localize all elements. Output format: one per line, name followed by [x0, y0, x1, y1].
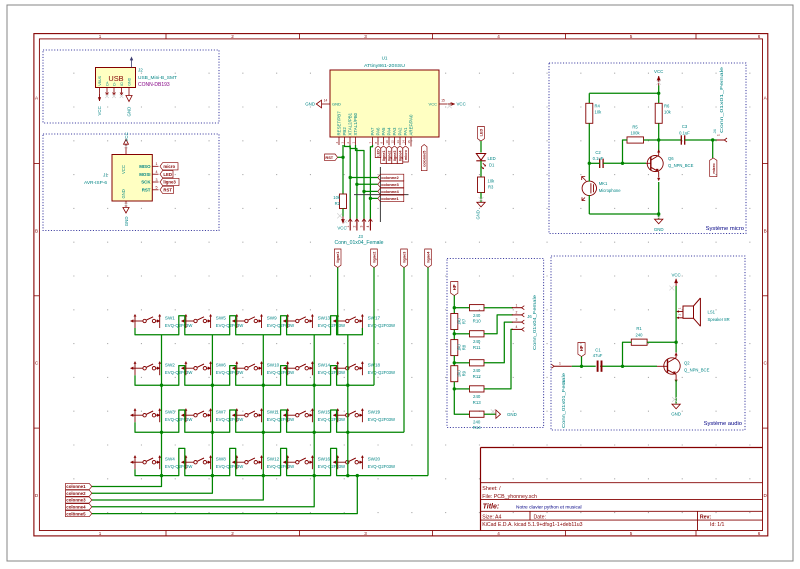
- svg-text:R8: R8: [462, 344, 467, 350]
- power GND micro: [654, 214, 664, 232]
- svg-text:3: 3: [364, 34, 367, 39]
- svg-text:GND: GND: [127, 107, 132, 117]
- global label colonne1: [66, 483, 92, 489]
- svg-text:VCC: VCC: [457, 102, 466, 107]
- switch SW2 EVQ-Q2F03W: [130, 361, 193, 375]
- global label LED: [478, 127, 485, 142]
- svg-text:10k: 10k: [488, 178, 496, 183]
- svg-text:ligne3: ligne3: [393, 151, 397, 162]
- junction base node: [621, 162, 624, 165]
- wire row 3 rail: [135, 410, 404, 432]
- title block: [481, 448, 763, 531]
- wire R6 to collector: [658, 123, 660, 151]
- svg-text:EVQ-Q2F03W: EVQ-Q2F03W: [318, 323, 346, 328]
- power VCC micro: [654, 69, 663, 86]
- svg-text:R10: R10: [473, 319, 482, 324]
- svg-text:SW14: SW14: [318, 363, 331, 368]
- svg-text:1: 1: [717, 134, 721, 136]
- switch SW1 EVQ-Q2F03W: [130, 314, 193, 328]
- svg-text:240: 240: [473, 368, 481, 373]
- global label ligne4: [425, 249, 432, 268]
- svg-text:Date:: Date:: [534, 514, 546, 520]
- svg-text:colonne5: colonne5: [423, 151, 427, 167]
- wire ligne1 to row 1: [337, 268, 339, 335]
- svg-text:R6: R6: [664, 104, 670, 109]
- svg-text:1k0: 1k0: [456, 344, 461, 351]
- wire RESET/PB7 to R2: [342, 145, 344, 194]
- svg-text:ligne2: ligne2: [388, 151, 392, 162]
- svg-text:47uF: 47uF: [593, 353, 603, 358]
- wire node1 to R10: [454, 307, 469, 309]
- svg-text:2: 2: [353, 226, 357, 228]
- svg-text:MISO: MISO: [139, 164, 151, 169]
- svg-text:XTAL2/PB1: XTAL2/PB1: [348, 112, 353, 135]
- svg-text:EVQ-Q2F03W: EVQ-Q2F03W: [368, 370, 396, 375]
- svg-text:3: 3: [516, 318, 518, 322]
- wire row 4 rail: [135, 448, 428, 475]
- global label colonne3: [66, 497, 92, 503]
- switch SW3 EVQ-Q2F03W: [130, 408, 193, 422]
- global label micro at U1: [403, 146, 409, 162]
- U1 bottom pins: [335, 111, 413, 145]
- svg-text:Q_NPN_BCE: Q_NPN_BCE: [668, 163, 694, 168]
- svg-text:colonne4: colonne4: [66, 505, 86, 510]
- svg-text:GND: GND: [654, 227, 664, 232]
- svg-text:15: 15: [441, 98, 445, 102]
- junction gnd rail: [657, 212, 660, 215]
- svg-text:File: PCB_yhonney.sch: File: PCB_yhonney.sch: [482, 494, 537, 500]
- wire D1 to R3: [480, 161, 482, 177]
- svg-text:SCK: SCK: [141, 180, 151, 185]
- svg-text:1: 1: [99, 34, 102, 39]
- svg-text:C1: C1: [595, 347, 601, 352]
- svg-text:LED: LED: [377, 149, 381, 157]
- svg-text:PA1: PA1: [403, 127, 408, 136]
- svg-text:SW8: SW8: [216, 457, 226, 462]
- svg-text:SW11: SW11: [267, 410, 280, 415]
- svg-text:3: 3: [364, 531, 367, 536]
- svg-text:PA4: PA4: [387, 127, 392, 136]
- switch SW10 EVQ-Q2F03W: [232, 361, 295, 375]
- junction column 3 rails: [262, 384, 265, 387]
- switch SW8 EVQ-Q2F03W: [181, 455, 244, 469]
- junction column 5 rails: [346, 384, 349, 387]
- svg-text:1: 1: [156, 162, 158, 166]
- switch SW17 EVQ-Q2F03W: [333, 314, 396, 328]
- wire emitter to gnd rail: [658, 182, 660, 214]
- svg-text:SW13: SW13: [318, 315, 331, 320]
- svg-text:colonne2: colonne2: [66, 491, 86, 496]
- svg-text:AREF/PA0: AREF/PA0: [409, 114, 414, 135]
- wire to colonne2 label: [350, 177, 378, 179]
- global label micro: [710, 158, 717, 177]
- wire column 1 vertical: [161, 335, 163, 476]
- wire MK1 to gnd rail: [588, 195, 590, 214]
- svg-text:R14: R14: [473, 425, 482, 430]
- wire R8 to node3: [453, 356, 455, 366]
- svg-text:MK1: MK1: [599, 181, 608, 186]
- switch SW13 EVQ-Q2F03W: [283, 314, 346, 328]
- wire R3 to GND: [480, 193, 482, 203]
- connector J1 AVR-ISP-6: [112, 149, 159, 208]
- junction micro label node: [711, 138, 714, 141]
- svg-text:R9: R9: [462, 370, 467, 376]
- svg-text:LS1: LS1: [708, 310, 716, 315]
- switch SW5 EVQ-Q2F03W: [181, 314, 244, 328]
- svg-text:colonne3: colonne3: [66, 498, 86, 503]
- wire R1 left to base node: [623, 342, 632, 366]
- global label ligne3 at U1: [392, 146, 398, 164]
- svg-text:6: 6: [758, 34, 761, 39]
- switch SW6 EVQ-Q2F03W: [181, 361, 244, 375]
- svg-text:SW16: SW16: [318, 457, 331, 462]
- transistor Q6 Q_NPN_BCE: [646, 150, 694, 181]
- svg-text:ligne4: ligne4: [399, 150, 403, 162]
- svg-text:ligne4: ligne4: [427, 251, 431, 263]
- svg-text:RESET/PB7: RESET/PB7: [337, 111, 342, 136]
- global label HP ladder: [451, 282, 458, 296]
- wire R12 to J6 pin3: [484, 322, 513, 363]
- resistor R10 240: [470, 305, 485, 324]
- svg-text:PA5: PA5: [381, 127, 386, 136]
- Systeme audio dotted frame: [551, 256, 745, 430]
- global label colonne2: [66, 490, 92, 496]
- switch SW15 EVQ-Q2F03W: [283, 408, 346, 422]
- svg-text:VCC: VCC: [429, 102, 438, 107]
- svg-text:Système audio: Système audio: [704, 421, 742, 427]
- svg-text:VCC: VCC: [121, 165, 126, 174]
- svg-text:5: 5: [630, 531, 633, 536]
- svg-text:R1: R1: [636, 326, 642, 331]
- svg-text:SW20: SW20: [368, 457, 381, 462]
- svg-text:micro: micro: [163, 164, 175, 169]
- resistor ladder dotted frame: [447, 258, 544, 427]
- switch SW4 EVQ-Q2F03W: [130, 455, 193, 469]
- junction column 1 rails: [160, 384, 163, 387]
- svg-text:10k: 10k: [664, 110, 672, 115]
- resistor R5 100k: [627, 125, 644, 144]
- svg-text:KiCad E.D.A. kicad 5.1.9+dfsg: KiCad E.D.A. kicad 5.1.9+dfsg1-1+deb11u3: [482, 522, 582, 528]
- svg-text:Système micro: Système micro: [706, 226, 744, 232]
- wire R13 to J6 pin4: [484, 329, 513, 389]
- svg-text:Conn_01x01_Female: Conn_01x01_Female: [561, 372, 566, 428]
- junction base node audio: [621, 365, 624, 368]
- wire LED label to D1: [480, 141, 482, 153]
- junction column 4 rails: [313, 384, 316, 387]
- LED D1: [476, 154, 495, 170]
- svg-text:SW1: SW1: [165, 315, 175, 320]
- svg-text:Q_NPN_BCE: Q_NPN_BCE: [684, 368, 710, 373]
- svg-text:13: 13: [396, 140, 400, 144]
- global label colonne5 at U1: [421, 145, 427, 171]
- connector J2 USB: [96, 68, 136, 95]
- svg-text:SW9: SW9: [267, 315, 277, 320]
- svg-text:Q2: Q2: [684, 361, 690, 366]
- svg-text:SW19: SW19: [368, 410, 381, 415]
- resistor R11 240: [470, 331, 485, 350]
- svg-text:MOSI: MOSI: [139, 172, 150, 177]
- resistor R7 1k: [451, 314, 467, 330]
- wire C2 to Q6 base: [603, 162, 646, 164]
- wire base line audio: [600, 365, 657, 367]
- wire to colonne4 label: [364, 190, 378, 192]
- wire RST to RESET pin: [338, 156, 343, 158]
- svg-text:B: B: [764, 228, 767, 233]
- svg-text:micro: micro: [712, 163, 716, 174]
- global label colonne3: [378, 181, 404, 188]
- capacitor C3 0.1uF: [679, 124, 690, 145]
- svg-text:Sheet: /: Sheet: /: [482, 486, 501, 492]
- global label ligne3: [160, 178, 179, 185]
- svg-text:colonne5: colonne5: [66, 511, 86, 516]
- svg-text:SW2: SW2: [165, 363, 175, 368]
- graphic line horizontal: [354, 194, 409, 196]
- svg-text:1: 1: [516, 303, 518, 307]
- power GND below J1: [123, 203, 129, 227]
- svg-text:Size: A4: Size: A4: [482, 514, 501, 520]
- junction node2: [453, 332, 456, 335]
- wire emitter to GND audio: [675, 380, 677, 404]
- wire colonne3 drop: [92, 476, 263, 500]
- svg-text:0.1uF: 0.1uF: [593, 156, 604, 161]
- junction RESET node: [341, 156, 344, 159]
- svg-text:0.1uF: 0.1uF: [679, 130, 690, 135]
- svg-text:240: 240: [636, 333, 644, 338]
- wire mic node to C2: [589, 162, 599, 164]
- svg-text:Conn_01x01_Female: Conn_01x01_Female: [719, 66, 724, 133]
- global label micro: [160, 163, 178, 170]
- svg-text:colonne1: colonne1: [66, 484, 86, 489]
- global label ligne4 at U1: [397, 146, 403, 164]
- power GND ladder: [491, 409, 517, 418]
- svg-text:colonne3: colonne3: [381, 182, 399, 187]
- wire node2 to R11: [454, 333, 469, 335]
- svg-text:R11: R11: [473, 345, 481, 350]
- svg-text:ligne2: ligne2: [373, 252, 377, 263]
- svg-text:R13: R13: [473, 400, 482, 405]
- svg-text:J2: J2: [138, 68, 143, 73]
- svg-text:1: 1: [99, 531, 102, 536]
- resistor R2 10k: [333, 194, 346, 209]
- svg-text:GND: GND: [305, 102, 315, 107]
- wire XTAL1/PB0 to colonne4 and J3 pin3: [356, 145, 365, 219]
- svg-text:LED: LED: [480, 129, 484, 137]
- connector J3 Conn_01x04_Female: [335, 219, 384, 246]
- svg-text:4: 4: [516, 325, 518, 329]
- svg-text:R4: R4: [595, 104, 601, 109]
- wire column 3 vertical: [262, 335, 264, 476]
- wire R5 right to C3: [644, 139, 682, 141]
- svg-text:LED: LED: [163, 172, 172, 177]
- svg-text:3: 3: [360, 226, 364, 228]
- wire node4 down to R14: [454, 389, 469, 414]
- Systeme micro dotted frame: [549, 63, 746, 234]
- junction colonne5 drop: [356, 474, 359, 477]
- svg-text:VBUS: VBUS: [98, 75, 102, 85]
- transistor Q2 Q_NPN_BCE: [657, 353, 710, 383]
- svg-text:EVQ-Q2F03W: EVQ-Q2F03W: [318, 417, 346, 422]
- connector J4 Conn_01x01_Female: [712, 66, 727, 142]
- U1 pin VCC right: [429, 98, 447, 106]
- svg-text:GND: GND: [476, 210, 481, 219]
- svg-text:240: 240: [473, 394, 481, 399]
- resistor R1 240: [631, 326, 647, 345]
- connector J5 Conn_01x01_Female: [551, 362, 571, 428]
- junction VCC rail: [657, 92, 660, 95]
- wire R14 to GND: [484, 413, 496, 415]
- svg-text:100k: 100k: [630, 131, 640, 136]
- svg-text:EVQ-Q2F03W: EVQ-Q2F03W: [318, 464, 346, 469]
- svg-text:2: 2: [231, 531, 234, 536]
- svg-text:SW5: SW5: [216, 315, 226, 320]
- wire to colonne1 label: [370, 197, 377, 199]
- global label ligne1: [334, 249, 341, 268]
- svg-text:PA6: PA6: [376, 127, 381, 136]
- svg-text:4: 4: [497, 531, 500, 536]
- wire colonne1 drop: [92, 476, 162, 487]
- junction colonne3: [355, 183, 358, 186]
- wire ligne2 to row 2: [373, 268, 375, 386]
- wire colonne4 drop: [92, 476, 314, 507]
- svg-text:GND: GND: [121, 189, 126, 198]
- svg-text:4: 4: [497, 34, 500, 39]
- resistor R14 240: [470, 411, 485, 430]
- svg-text:SW15: SW15: [318, 410, 331, 415]
- svg-text:Q6: Q6: [668, 156, 674, 161]
- svg-text:C3: C3: [682, 124, 688, 129]
- svg-text:4: 4: [366, 226, 370, 228]
- power GND below R3: [476, 197, 486, 219]
- svg-text:Title:: Title:: [483, 504, 500, 511]
- svg-text:micro: micro: [404, 149, 408, 160]
- wire column 4 vertical: [313, 335, 315, 476]
- switch SW12 EVQ-Q2F03W: [232, 455, 295, 469]
- wire J5 to C1: [572, 365, 596, 367]
- wire node4 to R13: [454, 388, 469, 390]
- wire row 1 rail: [135, 316, 362, 335]
- junction colonne1: [369, 197, 372, 200]
- wire C2 node to MK1: [588, 163, 590, 181]
- global label colonne2: [378, 174, 404, 181]
- AVR-ISP area dotted frame: [43, 134, 219, 231]
- global label ligne2 at U1: [386, 146, 392, 164]
- svg-text:GND: GND: [127, 77, 131, 85]
- svg-text:colonne1: colonne1: [381, 196, 399, 201]
- svg-text:RST: RST: [142, 188, 151, 193]
- power VCC audio: [669, 273, 680, 291]
- svg-text:10k: 10k: [595, 110, 603, 115]
- power GND below USB: [126, 94, 132, 117]
- wire PA7 to colonne1 and J3 pin4: [370, 145, 372, 219]
- svg-text:ATtiny861-20SSU: ATtiny861-20SSU: [364, 63, 405, 68]
- wire colonne2 drop: [92, 476, 213, 494]
- svg-text:LED: LED: [488, 156, 496, 161]
- wire HP tap: [581, 357, 583, 367]
- no-connect marks: [105, 94, 109, 98]
- svg-text:Conn_01x04_Female: Conn_01x04_Female: [532, 294, 537, 350]
- junction mic top node: [588, 162, 591, 165]
- switch SW19 EVQ-Q2F03W: [333, 408, 396, 422]
- svg-text:R5: R5: [632, 125, 638, 130]
- resistor R12 240: [470, 360, 485, 379]
- junction colonne2: [349, 176, 352, 179]
- svg-text:1k0: 1k0: [456, 317, 461, 324]
- svg-text:SW4: SW4: [165, 457, 175, 462]
- wire R11 to J6 pin2: [484, 315, 513, 334]
- global label colonne4: [378, 188, 404, 195]
- global label HP audio: [578, 343, 585, 357]
- svg-text:R7: R7: [462, 318, 467, 324]
- speaker LS1: [677, 298, 730, 326]
- svg-text:GND: GND: [671, 412, 681, 417]
- connector J6 Conn_01x04_Female: [512, 294, 537, 350]
- switch SW14 EVQ-Q2F03W: [283, 361, 346, 375]
- svg-text:240: 240: [473, 419, 481, 424]
- global label ligne2: [371, 249, 378, 268]
- global label ligne1 at U1: [381, 146, 387, 164]
- svg-text:HP: HP: [452, 284, 457, 290]
- svg-text:D+: D+: [105, 81, 109, 86]
- svg-text:VCC: VCC: [654, 69, 663, 74]
- USB connector area dotted frame: [43, 50, 219, 123]
- svg-text:VCC: VCC: [124, 132, 129, 141]
- junction node3: [453, 361, 456, 364]
- IC U1 ATtiny861-20SSU: [330, 56, 439, 138]
- USB shield pin: [131, 60, 133, 68]
- svg-text:VCC: VCC: [97, 106, 102, 115]
- wire R5 left to base node: [623, 140, 628, 163]
- svg-text:10: 10: [385, 140, 389, 144]
- svg-text:EVQ-Q2F03W: EVQ-Q2F03W: [368, 323, 396, 328]
- junction colonne4: [362, 190, 365, 193]
- wire to colonne3 label: [357, 183, 378, 185]
- svg-text:colonne4: colonne4: [381, 189, 399, 194]
- svg-text:PB2: PB2: [342, 127, 347, 136]
- power GND at U1 left: [305, 100, 321, 108]
- junction R6 C3 node: [657, 138, 660, 141]
- svg-text:14: 14: [402, 140, 406, 144]
- svg-text:RST: RST: [325, 155, 333, 160]
- wire row 2 rail: [135, 366, 374, 386]
- svg-text:PA2: PA2: [398, 127, 403, 136]
- wire to micro label: [712, 140, 714, 158]
- svg-text:Rev:: Rev:: [700, 514, 712, 520]
- global label ligne3: [401, 249, 408, 268]
- capacitor C1 47uF: [593, 347, 603, 371]
- resistor R3 10k: [478, 177, 496, 193]
- svg-text:SW7: SW7: [216, 410, 226, 415]
- global label colonne4: [66, 504, 92, 510]
- resistor R4 10k: [586, 103, 602, 123]
- svg-text:J1: J1: [103, 172, 108, 178]
- svg-text:EVQ-Q2F03W: EVQ-Q2F03W: [368, 417, 396, 422]
- svg-text:USB_Mini-B_SMT: USB_Mini-B_SMT: [138, 75, 177, 81]
- switch SW18 EVQ-Q2F03W: [333, 361, 396, 375]
- svg-text:XTAL1/PB0: XTAL1/PB0: [353, 112, 358, 135]
- graphic line vertical: [379, 167, 381, 222]
- svg-text:SW6: SW6: [216, 363, 226, 368]
- U1 pin GND left: [322, 98, 341, 106]
- global label LED at U1: [375, 146, 381, 158]
- svg-text:J3: J3: [358, 234, 363, 239]
- svg-text:D1: D1: [489, 162, 495, 167]
- svg-text:1: 1: [559, 362, 561, 366]
- svg-text:4: 4: [156, 170, 158, 174]
- wire VCC rail micro: [589, 92, 658, 94]
- global label RST: [160, 186, 174, 193]
- svg-text:GND: GND: [507, 412, 517, 417]
- wire ligne3 to row 3: [403, 268, 405, 433]
